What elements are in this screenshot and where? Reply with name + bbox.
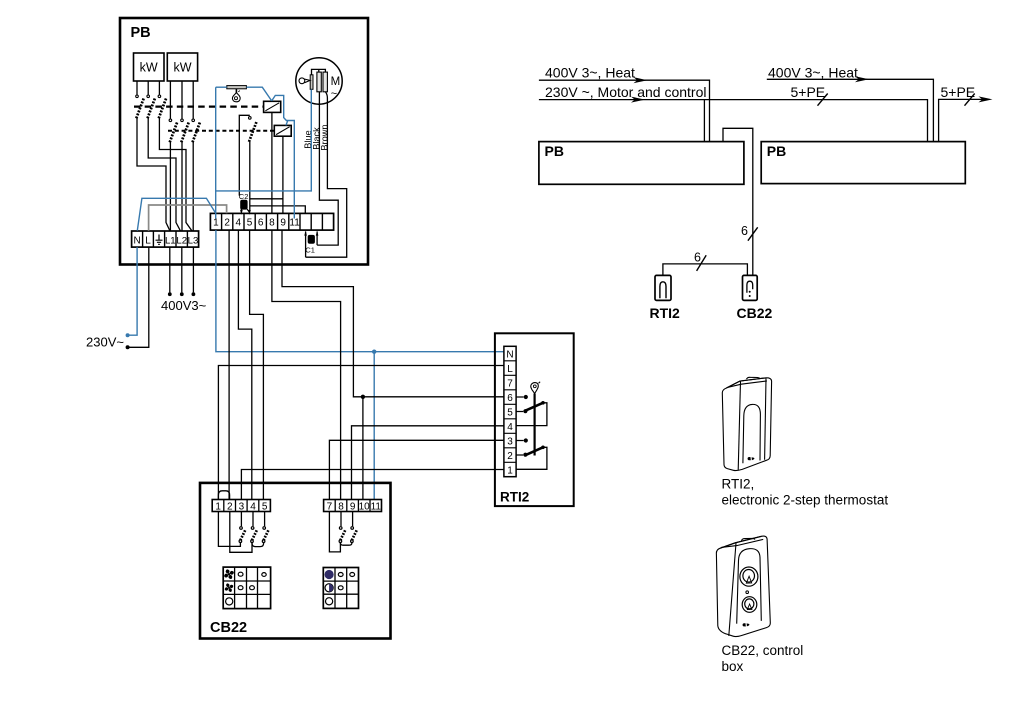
mechanical linkage dash line 2 <box>168 130 274 132</box>
block PB1 <box>539 142 744 185</box>
relay V2 <box>274 125 291 136</box>
wire PB9 to RTI2 6 <box>282 230 504 397</box>
svg-text:8: 8 <box>269 218 275 229</box>
wire RTI2 L to CB22 1 <box>218 366 504 500</box>
wire feed 400V to PB2 <box>767 79 934 142</box>
node 230V N dot <box>126 333 130 337</box>
kW meter 2 <box>167 53 197 81</box>
plug symbol CB22 <box>743 275 758 300</box>
wire node H1 to relay lead <box>250 198 283 200</box>
capacitor C2 <box>239 192 251 215</box>
cable 6 PB1 to CB22 <box>723 128 753 275</box>
wire blue junction to CB22 11 <box>373 352 375 500</box>
ground symbol in PE terminal <box>156 235 163 245</box>
wire blue lamp feed left <box>216 86 227 88</box>
knob 1 CB22 device <box>740 567 758 586</box>
wire K1 pole C to L3 <box>159 118 192 231</box>
jumper arc CB22 1-2 <box>218 491 229 500</box>
wire PB8 to CB22 8 <box>272 230 341 499</box>
contact S1 blade <box>249 121 257 142</box>
wire PB5 to CB22 5 <box>250 230 264 499</box>
contact S1 terminal <box>249 117 252 120</box>
wire K1 pole B to L2 <box>148 118 180 231</box>
arrow 400V left <box>634 77 648 83</box>
wire motor black lead to C1 <box>317 92 338 245</box>
wire feed 400V to PB1 <box>539 80 710 141</box>
svg-text:6: 6 <box>741 224 748 238</box>
knob 2 CB22 device <box>742 597 757 613</box>
svg-text:1: 1 <box>215 501 221 512</box>
svg-text:400V 3~, Heat: 400V 3~, Heat <box>545 65 635 81</box>
mode table right <box>323 568 358 609</box>
svg-text:CB22, control: CB22, control <box>722 643 804 658</box>
svg-text:N: N <box>133 236 140 247</box>
mechanical linkage dash line 1 <box>134 105 264 107</box>
wire relay V1 to terminal 8 <box>271 112 273 213</box>
svg-text:PB: PB <box>767 143 786 159</box>
wire blue lamp drop to terminal 1 <box>215 87 217 218</box>
wire kW1 leads <box>137 81 159 95</box>
thermal cutout glyph <box>232 89 240 102</box>
relay contact under CB22 9 <box>351 512 354 543</box>
wire blue terminal 1 to RTI2 N <box>216 230 504 352</box>
contact stubs RTI2 right <box>516 397 524 455</box>
motor winding 1 <box>317 72 321 92</box>
node 230V L dot <box>126 345 130 349</box>
wire gray L to terminal 2 <box>149 205 227 231</box>
svg-text:11: 11 <box>371 501 382 512</box>
svg-text:kW: kW <box>140 61 158 75</box>
labels RTI2 terminals <box>506 349 513 476</box>
plug symbol RTI2 <box>655 275 671 300</box>
svg-text:7: 7 <box>507 378 513 389</box>
wire L2 supply <box>181 247 183 292</box>
wire K2 pole A to L1 <box>169 142 171 231</box>
capacitor C1 <box>304 231 318 258</box>
product drawing CB22 control box <box>716 536 770 637</box>
svg-text:RTI2: RTI2 <box>650 305 681 321</box>
slash cable 6 vertical <box>748 227 758 240</box>
relay contact under CB22 4 <box>251 512 254 543</box>
contactor K2 contact blades <box>170 122 201 143</box>
motor thermal sensor glyph <box>299 78 305 84</box>
svg-text:1: 1 <box>507 465 513 476</box>
svg-text:RTI2: RTI2 <box>500 490 529 505</box>
wire blue relay V1 to relay V2 and terminal 11 <box>272 95 295 218</box>
svg-text:5: 5 <box>507 407 513 418</box>
wire motor brown lead to C1 <box>306 92 347 257</box>
svg-text:4: 4 <box>250 501 256 512</box>
svg-text:electronic 2-step thermostat: electronic 2-step thermostat <box>722 493 889 508</box>
svg-text:6: 6 <box>694 251 701 265</box>
terminal strip PB numbered <box>210 213 333 230</box>
svg-text:6: 6 <box>507 393 513 404</box>
relay contact under CB22 8 <box>339 512 342 543</box>
table right small circles <box>326 573 355 605</box>
node L3 dot <box>192 292 196 296</box>
slash 5+PE mid <box>818 94 828 106</box>
control box CB22 enclosure <box>200 483 391 639</box>
svg-text:5: 5 <box>247 218 253 229</box>
wire feed 230V and 5+PE bus <box>539 100 928 142</box>
filled mode circle <box>325 570 334 579</box>
wire junction to CB22 10 <box>362 397 364 500</box>
wire N to 230V <box>130 247 138 335</box>
wire loop contacts 4-5 <box>252 543 264 547</box>
slash cable 6 horizontal <box>697 255 707 271</box>
motor thermal bar <box>310 75 313 90</box>
relay contact under CB22 5 <box>262 512 265 543</box>
product drawing RTI2 thermostat <box>722 377 771 470</box>
terminal strip CB22 1-5 <box>212 500 270 512</box>
wire 5+PE out of PB2 <box>939 99 989 141</box>
svg-text:9: 9 <box>280 218 286 229</box>
svg-text:2: 2 <box>507 451 513 462</box>
wire CB22 7 to contact 8 <box>329 512 340 552</box>
terminal column RTI2 <box>504 346 516 476</box>
arrow 230V <box>631 97 645 103</box>
labels PB terminals 1-11 <box>213 218 300 229</box>
svg-text:2: 2 <box>224 218 230 229</box>
wire blue branch to motor <box>216 89 312 190</box>
svg-text:3: 3 <box>507 436 513 447</box>
motor winding 2 <box>323 72 327 92</box>
wire L3 supply <box>192 247 194 292</box>
svg-text:5+PE: 5+PE <box>941 84 976 100</box>
logo RTI2 device <box>748 457 755 460</box>
panel PB enclosure <box>120 18 368 265</box>
wire loop contacts 8-9 <box>340 543 352 546</box>
svg-text:M: M <box>331 76 341 88</box>
svg-text:L: L <box>507 364 513 375</box>
svg-text:400V 3~, Heat: 400V 3~, Heat <box>768 65 858 81</box>
svg-text:400V3~: 400V3~ <box>161 298 207 313</box>
wire drop 230V into PB1 <box>703 100 705 142</box>
block PB2 <box>761 142 965 184</box>
wire contact S1 to terminal 5 <box>249 142 251 212</box>
node junction RTI2 6 branch <box>361 395 365 399</box>
wire kW2 leads <box>170 81 193 119</box>
fan icon row2 <box>225 583 234 592</box>
svg-text:5: 5 <box>262 501 268 512</box>
svg-text:6: 6 <box>258 218 264 229</box>
svg-text:L3: L3 <box>188 236 199 247</box>
cable 6 RTI2 to CB22 <box>663 264 748 276</box>
wire contact S1 top feed <box>239 115 250 195</box>
svg-text:~: ~ <box>331 88 337 100</box>
svg-text:11: 11 <box>289 218 300 229</box>
fan icon row1 <box>224 569 234 579</box>
contactor K1 top terminals <box>136 95 161 98</box>
svg-text:4: 4 <box>236 218 242 229</box>
svg-text:L1: L1 <box>165 236 176 247</box>
motor M1 <box>296 58 342 104</box>
wire CB22 2 to contact 4 <box>230 512 252 553</box>
wire CB22 1 to contact 3 <box>218 512 240 547</box>
wire K2 pole B to L2 <box>181 142 183 231</box>
svg-text:8: 8 <box>338 501 344 512</box>
logo CB22 device <box>743 623 750 626</box>
terminal strip CB22 7-11 <box>324 500 382 512</box>
svg-text:5+PE: 5+PE <box>791 84 826 100</box>
indicator dot CB22 device <box>746 591 749 594</box>
svg-text:box: box <box>722 659 744 674</box>
mode table left <box>223 567 270 609</box>
svg-text:kW: kW <box>173 61 191 75</box>
contactor K1 contact blades <box>136 98 166 119</box>
wire L to 230V <box>130 247 149 347</box>
labels N L terminals <box>133 236 151 247</box>
wire RTI2 1 to CB22 3 <box>241 470 504 500</box>
wire L1 supply <box>169 247 171 292</box>
arrow 400V right <box>855 76 869 82</box>
node L1 dot <box>168 292 172 296</box>
svg-text:L: L <box>145 236 151 247</box>
svg-text:230V ~, Motor and control: 230V ~, Motor and control <box>545 84 707 100</box>
wire blue lamp to relay V1 <box>246 87 271 101</box>
node L2 dot <box>180 292 184 296</box>
wire relay V2 to terminal 9 <box>282 136 284 213</box>
thermostat RTI2 enclosure <box>495 333 574 506</box>
wire RTI2 3 to CB22 7 <box>329 440 504 499</box>
slash 5+PE out <box>965 94 975 106</box>
motor winding bus <box>312 69 326 74</box>
wire node H2 to spare terminal <box>250 206 305 214</box>
node blue junction <box>372 350 376 354</box>
contactor K2 top terminals <box>169 119 194 122</box>
svg-text:N: N <box>506 349 513 360</box>
svg-text:RTI2,: RTI2, <box>722 477 755 492</box>
kW meter 1 <box>134 53 165 81</box>
arrow 5+PE out <box>979 96 993 102</box>
wire RTI2 4 to CB22 9 <box>352 426 504 500</box>
svg-text:3: 3 <box>239 501 245 512</box>
sensor bulb RTI2 <box>531 382 540 393</box>
wire loop to RTI2 4 <box>516 403 547 426</box>
svg-text:2: 2 <box>227 501 233 512</box>
wire loop to RTI2 1 <box>516 447 547 469</box>
svg-text:C1: C1 <box>305 246 315 255</box>
wire blue N to terminal 1 <box>137 198 215 230</box>
svg-text:CB22: CB22 <box>210 620 247 636</box>
relay contact under CB22 3 <box>239 512 242 543</box>
contact arm upper RTI2 <box>525 401 545 411</box>
svg-text:4: 4 <box>507 422 513 433</box>
wire K2 pole C to L3 <box>192 142 194 231</box>
wire PB2 to CB22 2 <box>228 230 230 499</box>
terminal strip PB mains <box>132 231 199 247</box>
svg-text:CB22: CB22 <box>737 305 773 321</box>
svg-text:9: 9 <box>350 501 356 512</box>
svg-text:1: 1 <box>213 218 219 229</box>
svg-text:L2: L2 <box>176 236 187 247</box>
wire blue stub into relay V2 <box>286 121 288 126</box>
wire K1 pole A to L1 <box>137 118 170 231</box>
half filled mode circle <box>325 584 333 592</box>
svg-text:PB: PB <box>545 143 564 159</box>
overheat element bar <box>227 86 247 89</box>
relay V1 <box>264 101 281 112</box>
contact arm lower RTI2 <box>525 446 545 456</box>
svg-text:230V~: 230V~ <box>86 335 124 350</box>
svg-text:7: 7 <box>327 501 333 512</box>
svg-text:PB: PB <box>131 25 151 41</box>
svg-text:10: 10 <box>359 501 371 512</box>
wire PB4 to CB22 4 <box>238 230 251 499</box>
table left small circles <box>226 572 267 605</box>
linkage RTI2 <box>533 394 535 456</box>
